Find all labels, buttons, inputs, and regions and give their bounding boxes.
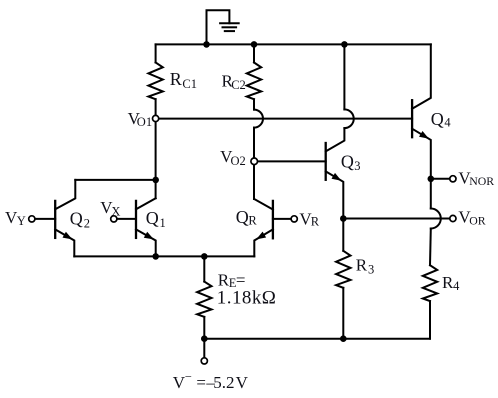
svg-text:C1: C1 <box>182 77 197 91</box>
svg-text:Q: Q <box>341 152 354 172</box>
svg-text:3: 3 <box>354 159 360 173</box>
svg-text:R: R <box>311 215 320 229</box>
resistor R3 <box>336 219 350 339</box>
wire node VO1 horizontal to Q4 base <box>156 118 413 120</box>
open terminals <box>29 115 456 364</box>
wire top supply rail <box>156 43 431 45</box>
svg-text:=: = <box>196 373 206 392</box>
svg-text:1: 1 <box>160 216 166 230</box>
svg-text:2: 2 <box>84 217 90 231</box>
svg-text:Q: Q <box>431 109 444 129</box>
wire emitter rail <box>74 255 254 257</box>
wire Q2 collector to Q1 collector node <box>75 179 155 181</box>
svg-text:4: 4 <box>453 279 460 293</box>
svg-text:R: R <box>170 69 182 89</box>
ground <box>207 10 239 44</box>
svg-text:O1: O1 <box>137 115 152 129</box>
wire node VO2 horizontal to Q3 base <box>254 160 326 162</box>
wire RC2 branch down to VO2 and QR collector <box>253 128 255 199</box>
wire Q3 collector up to rail <box>343 44 345 109</box>
resistor RC1 <box>148 44 162 118</box>
wire V- terminal lead <box>203 339 205 358</box>
svg-text:Q: Q <box>236 207 249 227</box>
wire bottom rail <box>204 338 430 340</box>
resistor R4 <box>423 229 437 339</box>
wire VNOR stub <box>431 178 450 180</box>
wire hop of RC2 branch over VO1 line <box>254 110 263 128</box>
wire Q4 emitter down <box>430 179 432 209</box>
svg-text:1.18kΩ: 1.18kΩ <box>217 288 277 309</box>
transistor Q2 <box>32 180 76 257</box>
transistor QR (mirrored) <box>254 199 294 256</box>
wire VOR line from Q3 emitter <box>343 218 449 220</box>
resistor RE <box>197 256 211 338</box>
transistor Q4 <box>412 44 431 178</box>
wire hop of Q4 emitter branch over VOR line <box>431 209 441 229</box>
svg-text:Q: Q <box>70 208 83 228</box>
svg-text:Q: Q <box>146 208 159 228</box>
transistor Q3 <box>326 128 345 218</box>
svg-text:C2: C2 <box>231 78 246 92</box>
transistor Q1 <box>114 198 156 256</box>
svg-text:NOR: NOR <box>469 174 494 188</box>
svg-text:O2: O2 <box>231 154 246 168</box>
resistor RC2 <box>247 44 261 109</box>
wire hop of Q3 collector over VO1 line <box>344 109 353 128</box>
svg-text:5.2: 5.2 <box>213 373 234 392</box>
svg-text:X: X <box>111 205 120 219</box>
wire VO1 vertical down to Q1 collector <box>155 119 157 199</box>
svg-text:OR: OR <box>469 213 486 227</box>
svg-text:V: V <box>236 373 249 392</box>
svg-text:=: = <box>236 270 246 289</box>
svg-text:3: 3 <box>368 262 374 276</box>
svg-text:R: R <box>248 214 257 228</box>
svg-text:−: − <box>185 370 192 384</box>
svg-text:4: 4 <box>444 116 451 130</box>
svg-text:Y: Y <box>17 214 26 228</box>
svg-text:R: R <box>356 256 368 275</box>
